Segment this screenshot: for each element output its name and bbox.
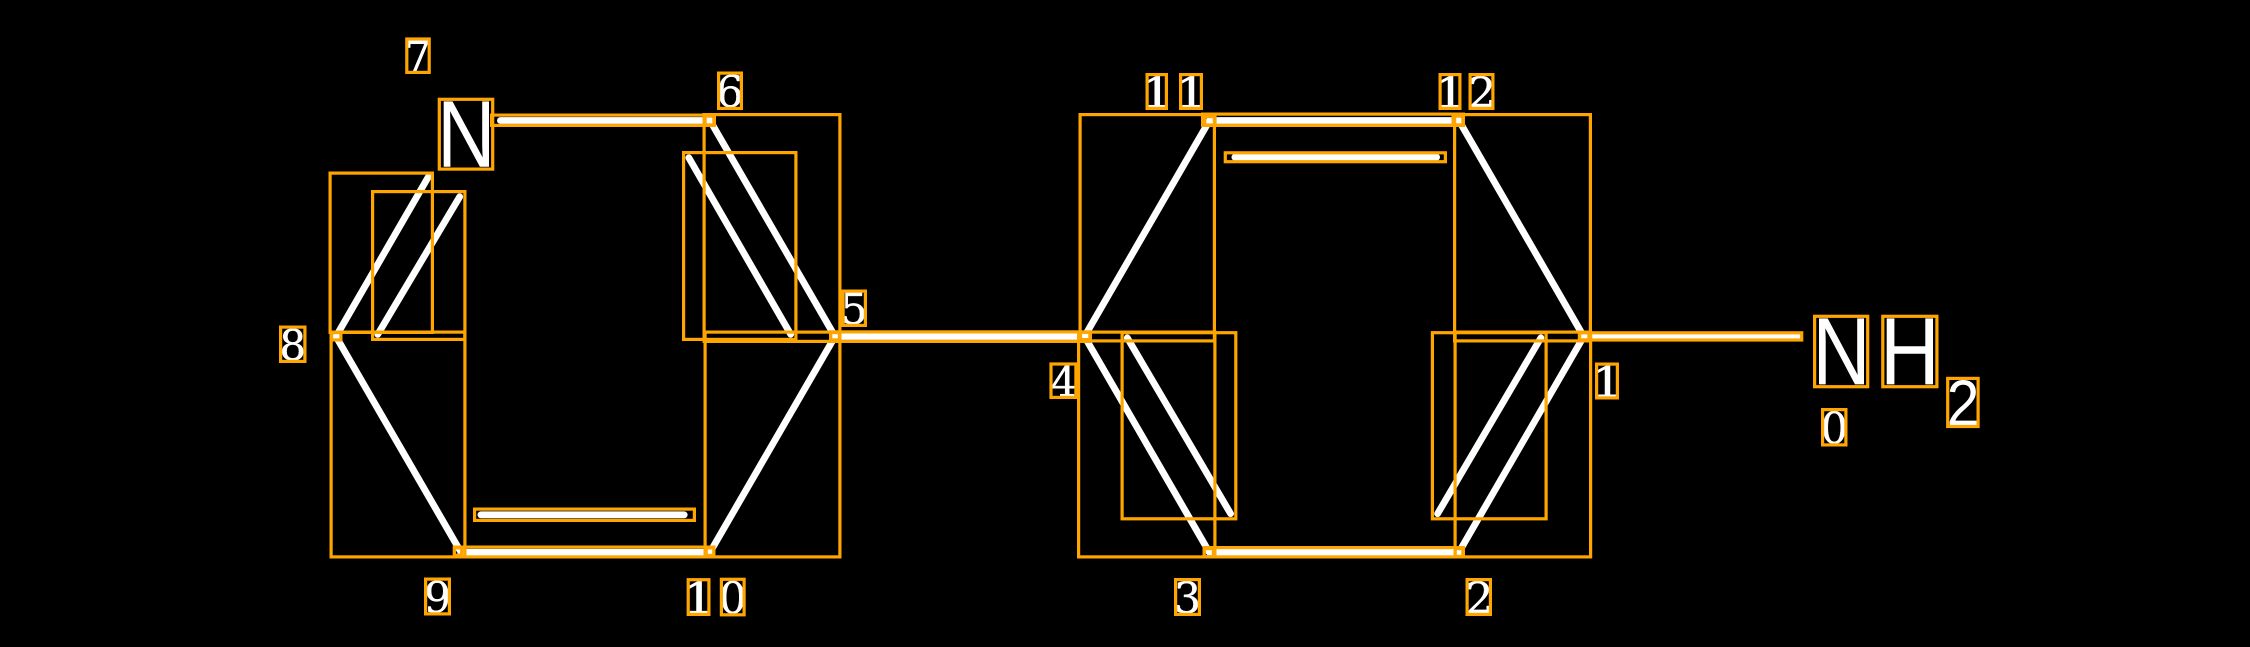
bbox bond C1-C2 inner [1432, 333, 1546, 519]
bbox bond C5-C4 [831, 332, 1090, 342]
bbox atom N0 glyph 2 [1948, 378, 1978, 426]
bbox bond C6-C5 outer [704, 115, 840, 342]
node index label 8 [282, 329, 303, 361]
bbox atom N0 glyph H [1883, 316, 1937, 386]
wire bond C2-C3 [1209, 549, 1459, 556]
bbox index label 5 [843, 291, 865, 325]
bbox bond C7N-C6 [492, 115, 714, 125]
node index label 3 [1177, 581, 1198, 613]
node index label 6 [719, 75, 741, 108]
node C11 marker [1205, 117, 1215, 125]
bbox bond C3-C4 inner [1122, 333, 1236, 519]
bbox bond N7-C8 outer [330, 173, 432, 332]
node C8 marker [332, 333, 341, 340]
bbox index label 7 [407, 39, 429, 72]
wire bond C3-C4 outer line [1085, 337, 1210, 553]
atom N0 amine subscript 2 glyph [1950, 380, 1977, 426]
wire bond C5-C4 biphenyl link [835, 333, 1085, 340]
bbox bond C8-C9 [331, 332, 465, 557]
bbox atom N7 glyph [439, 99, 492, 169]
wire bond C1-C2 inner line [1438, 338, 1541, 514]
bbox index label 6 [719, 73, 742, 108]
bbox bond C1-N0 [1579, 333, 1801, 340]
bbox index label 8 [281, 327, 305, 361]
bbox index label 11 digit 1 [1147, 75, 1166, 109]
wire bond C1-C2 outer line [1459, 337, 1584, 553]
node C1 marker [1580, 333, 1589, 340]
bbox index label 12 digit 2 [1470, 75, 1493, 109]
bbox bond C11-C12 outer [1203, 114, 1464, 125]
node index label 4 [1052, 365, 1075, 396]
node index label 12 digit 1 [1440, 76, 1459, 107]
wire bond N7-C8 inner line [378, 197, 460, 335]
bbox bond C1-C2 outer [1455, 332, 1591, 557]
atom N0 amine N glyph [1819, 318, 1864, 384]
node index label 2 [1468, 581, 1489, 613]
wire bond C9-C10 inner line [481, 511, 684, 518]
wire bond C8-C9 [336, 337, 461, 553]
node C12 marker [1453, 116, 1463, 125]
node index label 10 digit 0 [722, 581, 744, 614]
node C4 marker [1081, 332, 1091, 339]
node index label 11 digit 1 [1147, 76, 1166, 107]
bbox bond C12-C1 [1455, 115, 1591, 341]
bbox index label 12 digit 1 [1440, 75, 1460, 109]
atom N0 amine H glyph [1887, 318, 1933, 384]
wire bond C12-C1 [1459, 121, 1584, 337]
bbox bond C3-C4 outer [1079, 332, 1215, 557]
bbox index label 2 [1467, 580, 1490, 615]
node index label 10 digit 1 [689, 581, 708, 613]
node index label 11 digit 1b [1181, 76, 1200, 107]
wire bond C10-C5 [710, 337, 835, 553]
wire bond C7N-C6 [500, 117, 710, 124]
node C5 marker [831, 333, 840, 340]
bbox atom N0 glyph N [1815, 316, 1868, 386]
node index label 0 for amine N [1823, 411, 1845, 444]
bbox index label 10 digit 1 [688, 580, 709, 615]
bbox index label 1 [1597, 364, 1618, 398]
wire bond C1-N0 amine link [1584, 333, 1798, 340]
node C6 marker [705, 116, 714, 125]
bbox bond C2-C3 [1204, 548, 1463, 557]
node C10 marker [706, 548, 714, 556]
node C2 marker [1455, 549, 1463, 557]
wire bond C6-C5 outer line [710, 121, 835, 337]
bbox index label 0 for amine N [1823, 410, 1846, 445]
node index label 9 [427, 581, 449, 613]
bbox bond C6-C5 inner [684, 153, 796, 340]
wire bond C6-C5 inner line [689, 158, 791, 335]
node C3 marker [1204, 549, 1213, 557]
bbox bond C9-C10 outer [454, 547, 714, 557]
bbox bond C10-C5 [705, 332, 840, 557]
wire bond N7-C8 outer line [336, 177, 428, 337]
atom N7 pyridine N glyph [444, 101, 489, 166]
bbox bond C11-C12 inner [1225, 153, 1445, 162]
node index label 12 digit 2 [1471, 76, 1492, 107]
bbox bond C4-C11 [1080, 115, 1214, 341]
wire bond C9-C10 outer line [461, 549, 710, 556]
bbox bond N7-C8 inner [373, 192, 465, 340]
wire bond C11-C12 inner line [1235, 154, 1437, 161]
node C9 marker [454, 548, 461, 555]
bbox index label 4 [1051, 364, 1076, 397]
wire bond C3-C4 inner line [1127, 338, 1230, 514]
bbox bond C9-C10 inner [475, 509, 695, 520]
wire bond C11-C12 outer line [1210, 117, 1459, 124]
bbox index label 9 [426, 579, 450, 614]
node index label 7 [408, 40, 428, 71]
wire bond C4-C11 [1085, 121, 1210, 337]
node index label 5 [844, 293, 864, 325]
bbox index label 3 [1176, 580, 1200, 615]
bbox index label 10 digit 0 [721, 579, 744, 615]
bbox index label 11 digit 1b [1181, 75, 1202, 109]
node index label 1 [1597, 366, 1616, 397]
